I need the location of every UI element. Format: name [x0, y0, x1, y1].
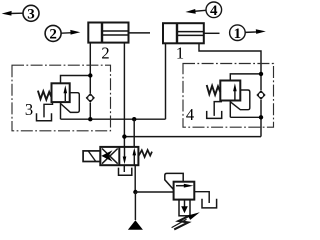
svg-text:2: 2: [49, 27, 57, 43]
svg-text:1: 1: [234, 26, 242, 42]
svg-text:2: 2: [101, 43, 109, 62]
svg-text:4: 4: [210, 3, 218, 19]
svg-text:1: 1: [176, 43, 184, 62]
svg-text:3: 3: [25, 100, 33, 119]
svg-text:4: 4: [186, 105, 194, 124]
svg-text:3: 3: [27, 7, 35, 23]
